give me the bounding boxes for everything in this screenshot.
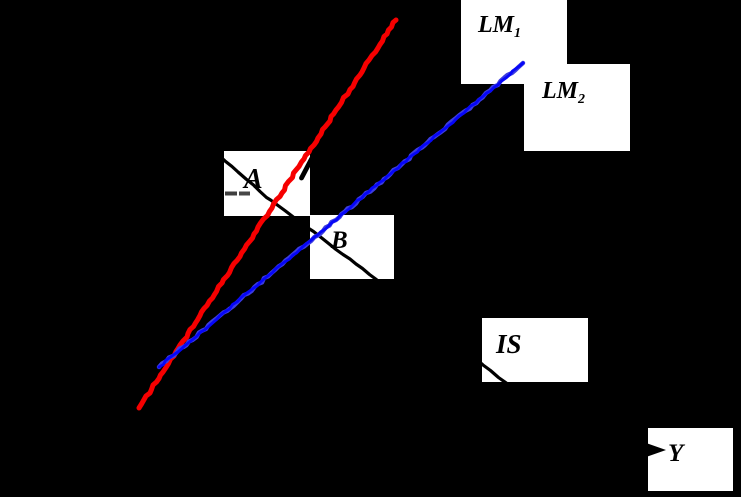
label box LM2 xyxy=(524,64,630,151)
label box A xyxy=(224,151,310,216)
LM1 curve (red) xyxy=(139,20,396,408)
label box B xyxy=(310,215,394,279)
dashed line to point A xyxy=(225,192,237,196)
svg-text:IS: IS xyxy=(495,329,522,359)
label box LM1 xyxy=(461,0,567,84)
label box IS xyxy=(482,318,588,382)
svg-text:A: A xyxy=(242,164,263,195)
LM1 original black line peeking beside red inside box A xyxy=(302,158,313,178)
IS curve (black) xyxy=(215,152,516,390)
svg-text:B: B xyxy=(330,227,348,254)
LM2 curve (blue) xyxy=(159,63,523,367)
LM2 curve halo (blue) xyxy=(159,63,523,367)
axis arrowhead Y xyxy=(639,441,666,460)
label box Y xyxy=(648,428,733,491)
